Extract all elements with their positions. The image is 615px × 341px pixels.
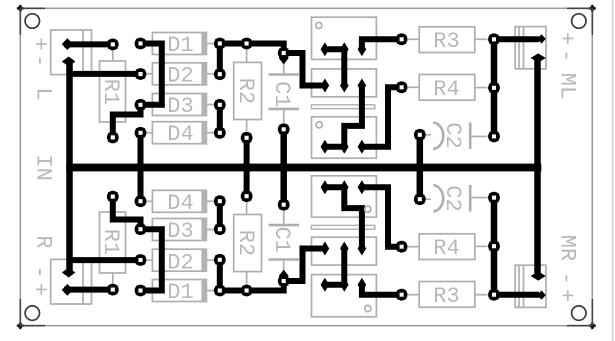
svg-text:R1: R1 [98,229,123,255]
svg-text:D2: D2 [167,250,193,275]
svg-text:R3: R3 [433,29,459,54]
svg-text:D1: D1 [167,33,193,58]
svg-text:D1: D1 [167,280,193,305]
svg-text:+: + [554,32,579,45]
svg-text:+: + [27,283,52,296]
svg-text:ML: ML [555,73,580,99]
svg-text:-: - [554,49,579,62]
svg-text:D3: D3 [167,94,193,119]
svg-text:-: - [554,272,579,285]
svg-text:C1: C1 [269,81,294,107]
svg-text:R2: R2 [233,78,258,104]
svg-text:+: + [554,289,579,302]
svg-text:R2: R2 [233,230,258,256]
svg-text:D4: D4 [167,191,193,216]
svg-text:R1: R1 [98,79,123,105]
svg-text:-: - [27,54,52,67]
svg-text:MR: MR [555,235,580,261]
svg-text:C2: C2 [440,122,465,148]
svg-text:R3: R3 [433,284,459,309]
svg-text:+: + [27,37,52,50]
svg-text:R: R [31,235,56,248]
svg-text:R4: R4 [433,77,459,102]
svg-text:-: - [27,265,52,278]
svg-text:D4: D4 [167,122,193,147]
svg-text:D3: D3 [167,219,193,244]
svg-text:IN: IN [31,154,56,180]
svg-text:C2: C2 [440,185,465,211]
svg-text:D2: D2 [167,63,193,88]
svg-text:R4: R4 [433,236,459,261]
svg-text:L: L [31,87,56,100]
svg-text:C1: C1 [269,226,294,252]
